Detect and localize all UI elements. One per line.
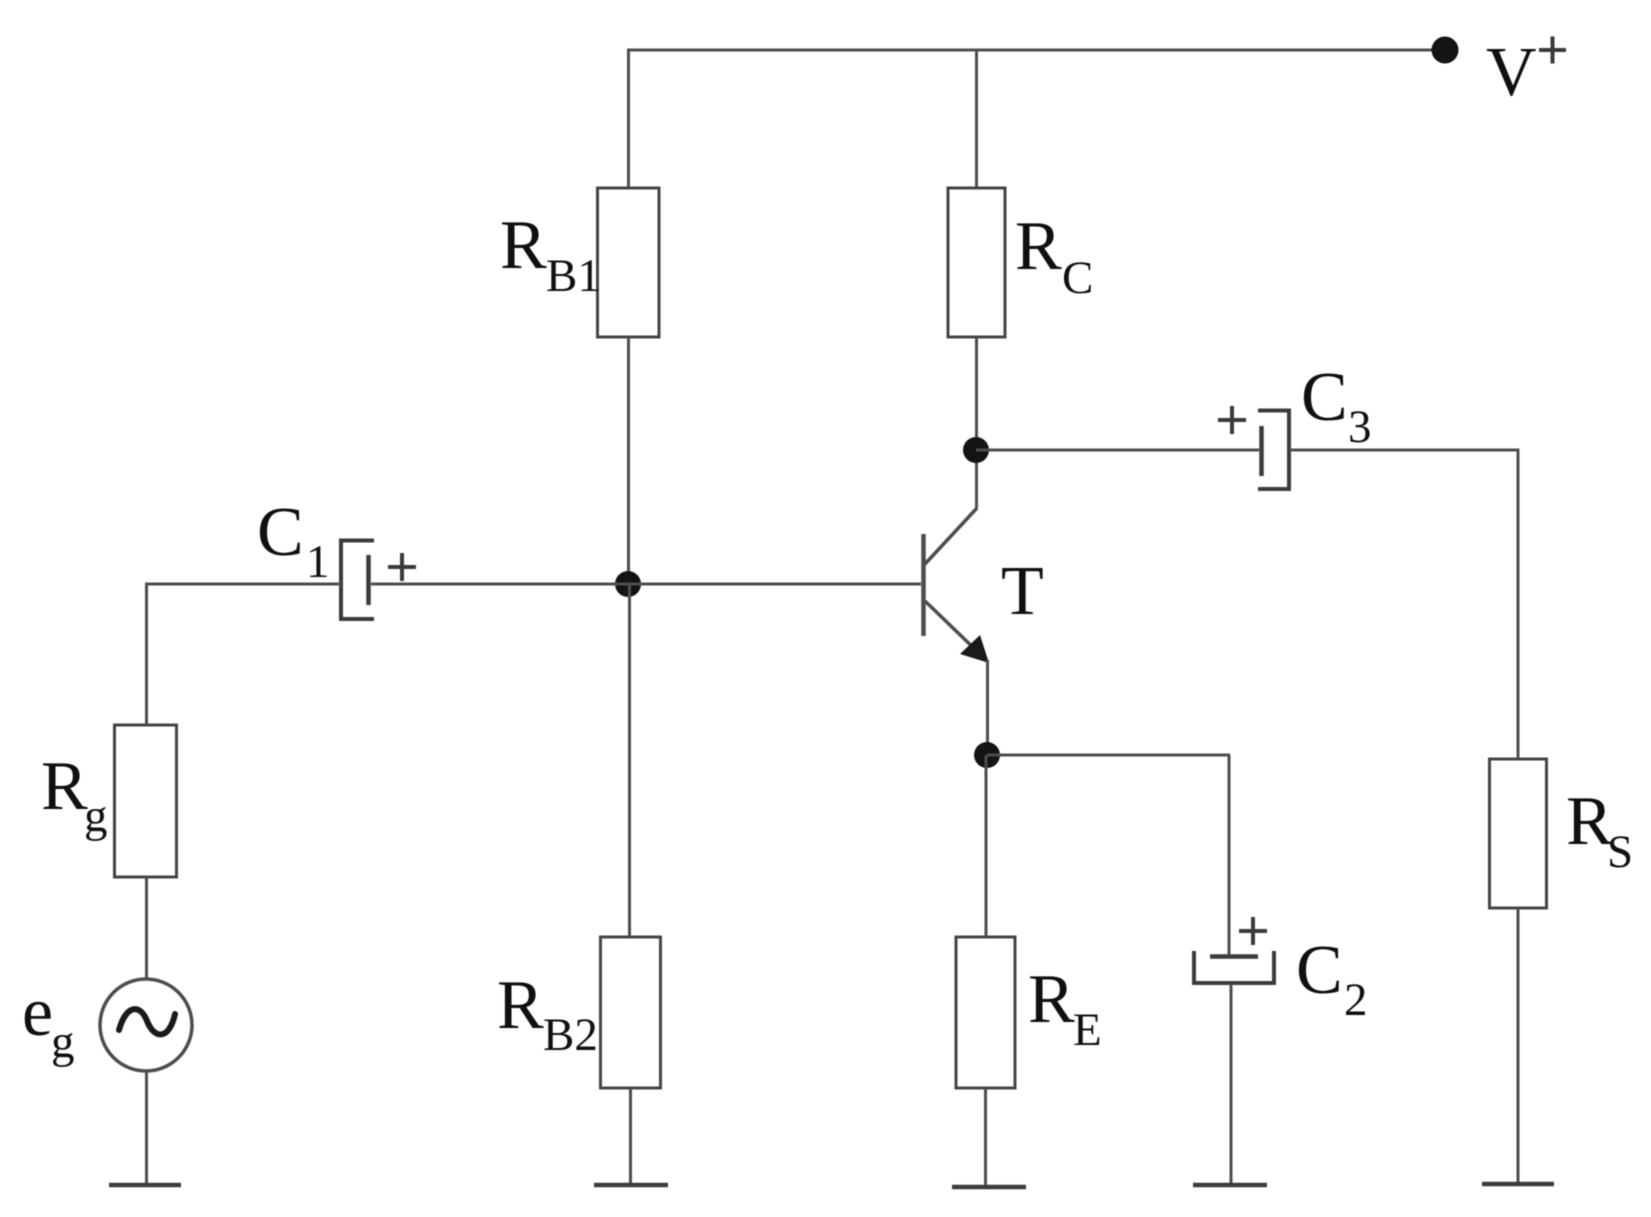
label C3: [1301, 359, 1372, 453]
wire RE to ground: [984, 1088, 987, 1186]
node emitter dot: [974, 742, 1000, 768]
wire Rg to source: [145, 877, 148, 980]
ground under RE: [952, 1185, 1026, 1190]
wire V+ rail to RC: [975, 49, 978, 189]
wire emitter to C2: [987, 754, 1230, 757]
label RE: [1028, 961, 1102, 1056]
svg-text:R: R: [41, 748, 88, 825]
label C2: [1296, 932, 1368, 1026]
svg-text:R: R: [1015, 208, 1062, 285]
node base junction dot: [615, 571, 641, 597]
svg-text:2: 2: [1344, 974, 1368, 1026]
ground under C2: [1193, 1183, 1267, 1188]
wire RC to collector: [975, 337, 978, 508]
svg-text:V: V: [1486, 34, 1537, 111]
wire RB2 to ground: [629, 1088, 632, 1184]
capacitor C3: [1218, 406, 1289, 489]
svg-text:C: C: [1062, 252, 1093, 304]
wire down to C2: [1228, 755, 1231, 955]
wire base node to RB2: [628, 584, 631, 937]
wire C3 to RS column: [1289, 449, 1519, 452]
label RC: [1015, 208, 1093, 304]
svg-text:3: 3: [1348, 401, 1372, 453]
transistor T: [924, 508, 990, 755]
svg-text:R: R: [1028, 961, 1075, 1038]
svg-text:C: C: [1301, 359, 1348, 436]
resistor Rg: [115, 725, 177, 877]
label eg: [22, 974, 75, 1068]
svg-text:R: R: [500, 207, 547, 284]
svg-text:B1: B1: [546, 250, 601, 302]
label V+: [1486, 34, 1566, 111]
label C1: [257, 494, 330, 588]
wire base horizontal: [371, 583, 921, 586]
wire V+ rail to RB1: [627, 49, 630, 189]
wire RS column down: [1517, 449, 1520, 760]
label RB2: [497, 967, 598, 1061]
svg-text:R: R: [497, 967, 544, 1044]
node collector dot: [963, 437, 989, 463]
svg-text:g: g: [51, 1016, 75, 1068]
ground under eg: [109, 1183, 181, 1188]
svg-text:T: T: [1001, 553, 1044, 630]
capacitor C2: [1194, 917, 1274, 983]
label Rg: [41, 748, 108, 842]
svg-text:B2: B2: [543, 1009, 598, 1061]
label RB1: [500, 207, 601, 302]
resistor RC: [948, 188, 1005, 337]
wire left column to Rg: [145, 583, 148, 726]
wire C1 to left column: [145, 583, 341, 586]
wire collector to C3: [976, 449, 1259, 452]
svg-text:R: R: [1566, 783, 1613, 860]
resistor RB1: [598, 188, 660, 337]
wire RB1 to base node: [627, 337, 630, 584]
svg-text:e: e: [22, 974, 53, 1051]
resistor RS: [1490, 759, 1547, 908]
resistor RE: [956, 937, 1015, 1088]
svg-text:C: C: [257, 494, 304, 571]
svg-text:E: E: [1073, 1004, 1102, 1056]
node V+ terminal dot: [1432, 37, 1459, 64]
resistor RB2: [601, 937, 661, 1088]
source eg: [100, 979, 192, 1071]
label RS: [1566, 783, 1633, 878]
svg-text:C: C: [1296, 932, 1343, 1009]
wire C2 to ground: [1230, 984, 1233, 1184]
wire RS to ground: [1517, 908, 1520, 1183]
ground under RS: [1482, 1182, 1554, 1187]
svg-text:S: S: [1607, 826, 1633, 878]
wire top rail: [627, 49, 1445, 52]
wire emitter to RE: [985, 755, 988, 937]
svg-text:g: g: [84, 790, 108, 842]
wire source to ground: [145, 1071, 148, 1184]
capacitor C1: [341, 541, 416, 620]
ground under RB2: [594, 1183, 668, 1188]
svg-text:1: 1: [306, 536, 330, 588]
